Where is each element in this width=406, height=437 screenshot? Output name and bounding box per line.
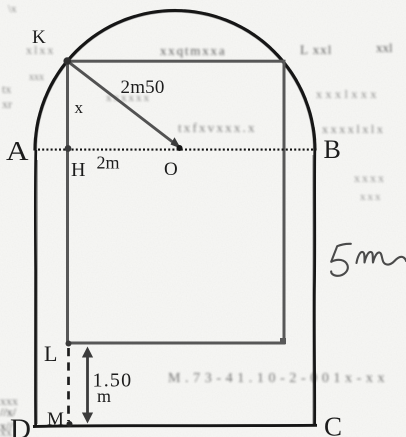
wall left — [34, 150, 37, 426]
arrowhead at O end of hypotenuse — [171, 137, 182, 148]
svg-text:\x: \x — [8, 3, 17, 15]
faint bleed-through band top right — [160, 40, 393, 58]
svg-text:K: K — [32, 27, 46, 48]
arch A to B — [35, 11, 315, 151]
faint bleed-through band bottom (M.73-41...) — [168, 371, 389, 386]
handwritten 5m annotation — [331, 244, 406, 276]
svg-text:2m: 2m — [97, 153, 120, 173]
svg-text:L: L — [44, 341, 57, 366]
dashed segment L to M — [67, 348, 70, 421]
corner blob bottom-right of inner rectangle — [280, 338, 286, 344]
faint bleed-through band lower right — [354, 171, 386, 203]
svg-text:tx: tx — [2, 82, 11, 96]
point K — [63, 57, 71, 65]
svg-text:M: M — [47, 409, 64, 430]
svg-text:H: H — [71, 159, 85, 181]
svg-text:xxqtmxxa: xxqtmxxa — [160, 43, 226, 58]
segment K to O (hypotenuse, labelled 2m50) — [68, 61, 177, 145]
faint bleed-through band left of K — [2, 3, 151, 111]
faint bleed-through band right upper — [316, 87, 380, 101]
inner rectangle KLB' — [68, 61, 285, 343]
svg-text:xxx: xxx — [0, 394, 18, 408]
wall right — [313, 150, 316, 425]
outer arched door outline (sketchy pencil) — [33, 9, 317, 426]
faint bleed-through band mid (above dotted line) — [178, 120, 385, 136]
svg-text:xxl: xxl — [376, 40, 393, 55]
point H — [65, 145, 72, 152]
svg-text:txfxvxxx.x: txfxvxxx.x — [178, 120, 257, 135]
svg-text:xxxlxxx: xxxlxxx — [316, 87, 380, 101]
svg-text:x: x — [75, 98, 84, 117]
svg-text:xxx: xxx — [29, 72, 44, 83]
svg-text:xxx: xxx — [360, 191, 383, 203]
svg-text:xr: xr — [2, 97, 12, 111]
svg-text:m: m — [97, 386, 111, 406]
bottom-left corner hatch smudge — [0, 405, 17, 433]
svg-text:O: O — [164, 159, 178, 180]
svg-text:C: C — [324, 412, 342, 437]
svg-text:2m50: 2m50 — [121, 77, 165, 98]
point M — [67, 421, 73, 427]
svg-text:M.73-41.10-2-001x-xx: M.73-41.10-2-001x-xx — [168, 371, 389, 386]
bottom D to C — [33, 425, 317, 426]
dotted chord A to B — [38, 149, 314, 151]
faint blob bottom-left — [0, 394, 18, 437]
point O — [177, 145, 183, 151]
svg-text:B: B — [324, 135, 341, 164]
svg-text:xxxxlxlx: xxxxlxlx — [322, 122, 385, 136]
svg-text:xxxx: xxxx — [354, 171, 386, 185]
svg-text:A: A — [6, 136, 29, 166]
double arrow 1.50 m — [82, 347, 93, 424]
svg-text:D: D — [10, 414, 31, 437]
svg-text:L xxl: L xxl — [300, 42, 332, 57]
point L — [66, 341, 72, 347]
